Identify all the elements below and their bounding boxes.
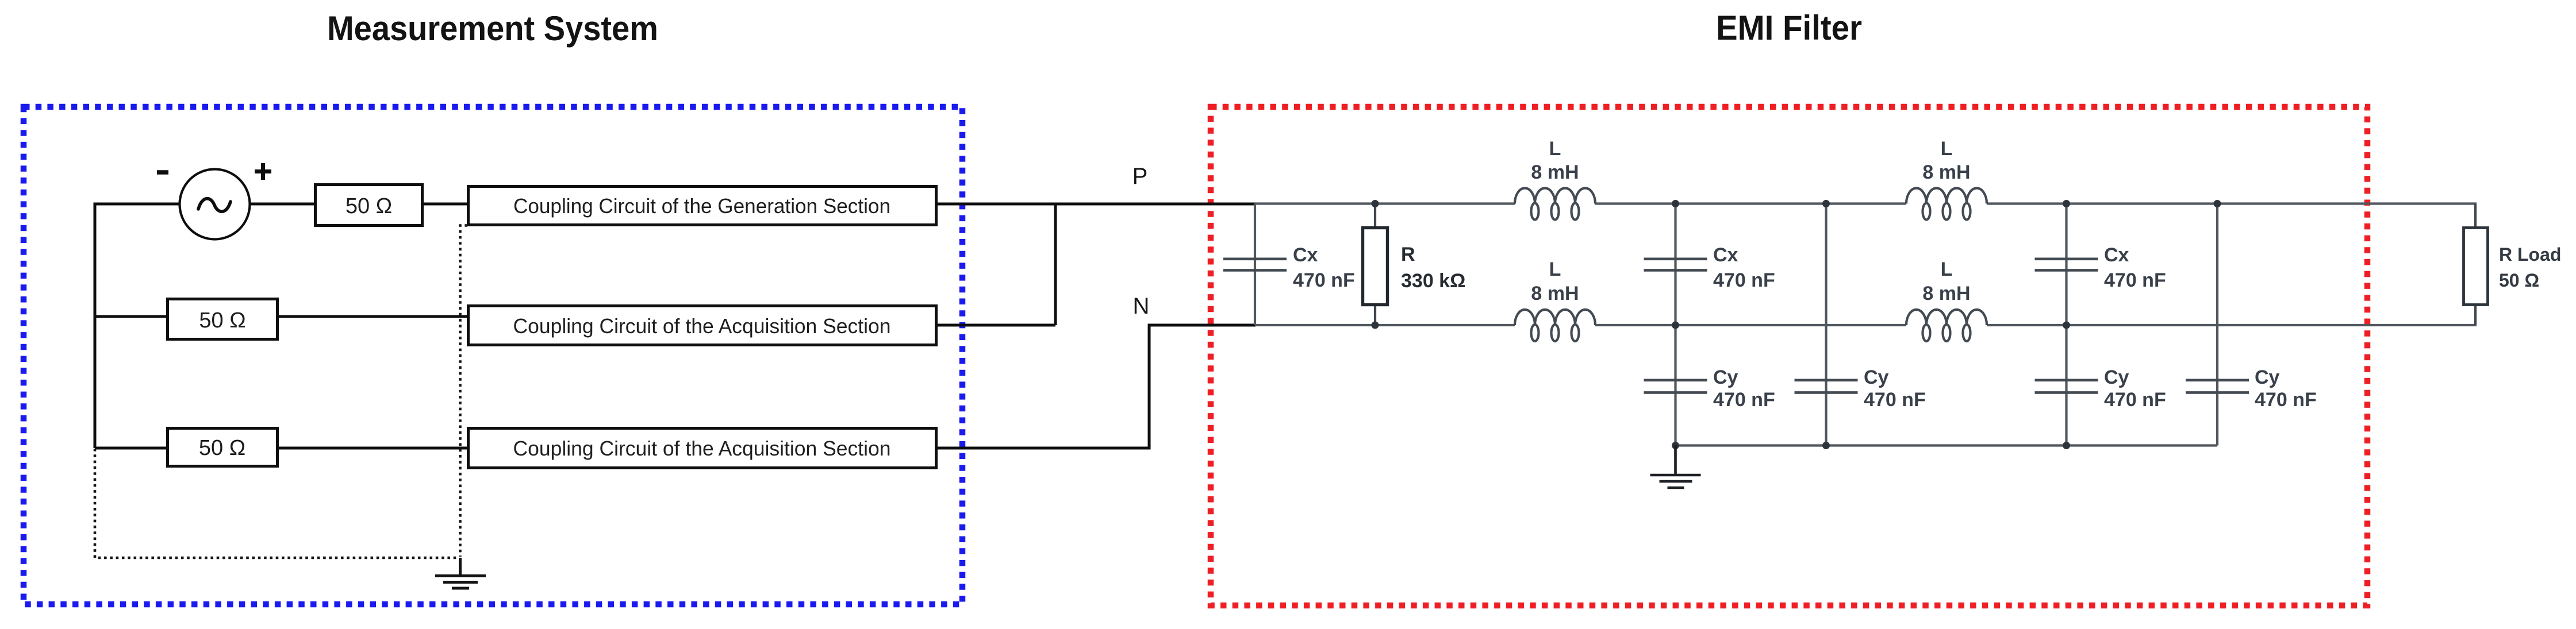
svg-text:50 Ω: 50 Ω xyxy=(199,436,245,460)
coupling circuit box 1 (generation) xyxy=(469,187,936,225)
svg-text:8 mH: 8 mH xyxy=(1531,161,1579,183)
svg-text:8 mH: 8 mH xyxy=(1531,283,1579,304)
ground G1 (measurement system) xyxy=(435,558,486,588)
svg-text:470 nF: 470 nF xyxy=(1713,269,1775,291)
svg-text:Cy: Cy xyxy=(1713,366,1738,388)
svg-text:Cx: Cx xyxy=(2104,244,2129,266)
dotted ground reference wire vertical from coupling box 1 xyxy=(460,226,468,557)
svg-text:470 nF: 470 nF xyxy=(1713,389,1775,411)
capacitor Cx3 branch with Cy3 xyxy=(2035,200,2166,449)
svg-text:L: L xyxy=(1549,258,1561,280)
capacitor Cx1 xyxy=(1223,203,1355,325)
svg-text:50 Ω: 50 Ω xyxy=(345,194,392,218)
junction dot bus-ground xyxy=(1672,442,1679,449)
svg-text:Measurement System: Measurement System xyxy=(327,9,658,48)
inductor L3 8mH (P line, stage 2) xyxy=(1906,138,1987,220)
svg-text:N: N xyxy=(1133,294,1150,319)
svg-text:8 mH: 8 mH xyxy=(1922,283,1970,304)
svg-text:50 Ω: 50 Ω xyxy=(2499,270,2539,291)
AC source plus terminal label xyxy=(255,163,271,180)
ground bus (Cy common) xyxy=(1676,444,2218,446)
capacitor Cy1 xyxy=(1644,366,1775,411)
wire row2: bus to R2 xyxy=(95,315,167,318)
ground G2 (EMI filter) xyxy=(1650,445,1701,488)
wire row3: R3 to coupling box 3 xyxy=(278,447,468,450)
inductor L4 8mH (N line, stage 2) xyxy=(1906,258,1987,341)
wire row1: bus to AC source xyxy=(94,203,181,206)
resistor R Load 50 ohm xyxy=(2464,204,2562,326)
resistor R2 50 ohm xyxy=(168,299,278,339)
svg-text:Cy: Cy xyxy=(1864,366,1889,388)
coupling circuit box 3 (acquisition) xyxy=(469,429,936,468)
svg-text:8 mH: 8 mH xyxy=(1922,161,1970,183)
wire row3: bus to R3 xyxy=(95,447,167,450)
svg-text:Coupling Circuit of the Acquis: Coupling Circuit of the Acquisition Sect… xyxy=(513,437,891,460)
EMI filter boundary (red dotted box) xyxy=(1211,107,2367,605)
svg-text:Cx: Cx xyxy=(1293,244,1318,266)
capacitor Cy4 branch xyxy=(2186,200,2317,446)
svg-text:470 nF: 470 nF xyxy=(1293,269,1355,291)
svg-text:Cy: Cy xyxy=(2104,366,2129,388)
wire row1: R1 to coupling box 1 xyxy=(423,203,468,206)
wire: coupling box 3 output rising to N xyxy=(936,325,1256,448)
wire row1: AC source to R1 xyxy=(249,203,315,206)
svg-text:Cy: Cy xyxy=(2255,366,2280,388)
svg-text:L: L xyxy=(1941,138,1953,160)
svg-text:P: P xyxy=(1132,164,1148,189)
wire: coupling box 2 output to P junction xyxy=(936,324,1055,327)
svg-text:L: L xyxy=(1941,258,1953,280)
capacitor Cy3 xyxy=(2035,366,2166,411)
inductor L1 8mH (P line, stage 1) xyxy=(1515,138,1595,220)
svg-text:470 nF: 470 nF xyxy=(2255,389,2317,411)
wire P line (EMI filter) xyxy=(1255,202,2477,204)
capacitor Cy2 branch xyxy=(1795,200,1926,449)
wire P: coupling box 1 to EMI filter xyxy=(936,203,1256,206)
svg-text:470 nF: 470 nF xyxy=(2104,389,2166,411)
svg-text:330 kΩ: 330 kΩ xyxy=(1401,270,1465,292)
svg-text:470 nF: 470 nF xyxy=(2104,269,2166,291)
AC source minus terminal label xyxy=(157,170,168,175)
wire N line (EMI filter) xyxy=(1255,324,2477,326)
svg-text:R: R xyxy=(1401,244,1415,265)
resistor R1 50 ohm xyxy=(316,185,423,226)
svg-text:470 nF: 470 nF xyxy=(1864,389,1926,411)
wire: junction vertical joining box2 output to P line xyxy=(1054,203,1057,326)
svg-text:EMI Filter: EMI Filter xyxy=(1716,9,1862,47)
resistor R 330k xyxy=(1363,200,1466,329)
svg-text:Coupling Circuit of the Acquis: Coupling Circuit of the Acquisition Sect… xyxy=(513,314,891,338)
svg-text:Coupling Circuit of the Genera: Coupling Circuit of the Generation Secti… xyxy=(513,194,890,218)
capacitor Cx2 branch with Cy1 xyxy=(1644,200,1775,445)
svg-text:L: L xyxy=(1549,138,1561,160)
svg-text:R Load: R Load xyxy=(2499,244,2561,265)
dotted ground reference wire from left bus xyxy=(95,449,458,558)
AC source V1 xyxy=(180,169,250,240)
wire left bus vertical xyxy=(94,203,97,449)
measurement system boundary (blue dotted box) xyxy=(24,107,962,604)
coupling circuit box 2 (acquisition) xyxy=(469,306,936,345)
resistor R3 50 ohm xyxy=(168,429,278,466)
inductor L2 8mH (N line, stage 1) xyxy=(1515,258,1595,341)
svg-text:Cx: Cx xyxy=(1713,244,1738,266)
svg-text:50 Ω: 50 Ω xyxy=(199,308,245,333)
wire row2: R2 to coupling box 2 xyxy=(278,315,468,318)
